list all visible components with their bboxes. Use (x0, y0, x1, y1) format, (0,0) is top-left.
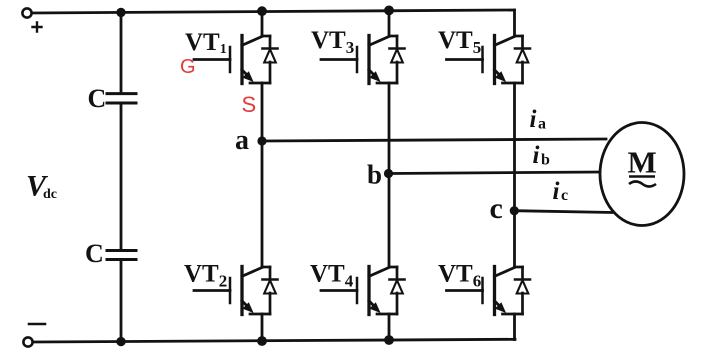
svg-text:VT3: VT3 (311, 27, 354, 57)
diode of VT1 (250, 36, 278, 83)
terminal - (bottom left) (23, 337, 32, 346)
wire leg3 bottom (513, 314, 516, 340)
svg-text:c: c (490, 192, 503, 225)
junction bottom rail / capacitor (116, 337, 125, 346)
wire capacitor branch lower (120, 261, 123, 342)
transistor VT2 (IGBT) (194, 267, 262, 315)
transistor VT6 (IGBT) (447, 267, 515, 315)
wire leg2 bottom (388, 314, 391, 340)
svg-text:M: M (628, 145, 657, 180)
minus sign (29, 323, 45, 326)
wire top rail (32, 10, 515, 13)
wire leg2 lower-mid (node b to VT4) (388, 174, 391, 268)
transistor VT4 (IGBT) (321, 267, 389, 315)
junction top rail / capacitor (116, 8, 125, 17)
wire phase a to motor (262, 139, 606, 141)
node b junction (384, 169, 393, 178)
svg-text:b: b (541, 152, 550, 169)
motor tilde (629, 182, 656, 187)
terminal + (top left) (22, 8, 31, 17)
wire leg1 bottom (261, 314, 264, 341)
wire leg3 lower-mid (node c to VT6) (513, 211, 516, 267)
wire leg2 top (388, 10, 391, 36)
plus sign (33, 23, 42, 32)
wire phase b to motor (389, 172, 600, 174)
capacitor C (lower) (107, 249, 136, 252)
junction bottom rail / leg2 (384, 335, 394, 345)
wire phase c to motor (515, 211, 613, 213)
svg-text:S: S (242, 92, 257, 117)
motor M (600, 123, 684, 226)
wire leg1 lower-mid (node a to VT2) (261, 141, 264, 267)
svg-text:VT5: VT5 (438, 27, 481, 57)
wire bottom rail (33, 339, 515, 342)
transistor VT1 (IGBT) (194, 36, 262, 84)
svg-text:dc: dc (43, 187, 57, 202)
svg-text:VT4: VT4 (310, 261, 354, 291)
junction top rail / leg1 (257, 6, 267, 16)
wire capacitor branch upper (120, 12, 123, 92)
svg-text:i: i (553, 178, 560, 205)
diode of VT2 (250, 267, 278, 314)
svg-text:c: c (561, 187, 568, 204)
wire leg1 upper-mid (VT1 emitter to node a) (261, 83, 264, 141)
svg-text:i: i (533, 142, 540, 169)
svg-text:a: a (235, 125, 249, 156)
wire leg3 top (513, 10, 516, 36)
wire leg1 top (261, 11, 264, 36)
wire between capacitors (120, 105, 123, 249)
transistor VT3 (IGBT) (321, 36, 389, 84)
svg-text:G: G (180, 56, 196, 78)
diode of VT6 (503, 267, 531, 314)
svg-text:VT1: VT1 (185, 29, 227, 57)
diode of VT3 (377, 36, 405, 83)
node c junction (510, 206, 519, 215)
junction top rail / leg2 (384, 5, 394, 15)
svg-text:C: C (85, 239, 104, 268)
svg-text:a: a (538, 116, 546, 133)
wire leg3 upper-mid (VT5 emitter to node c) (513, 83, 516, 211)
node a junction (257, 136, 266, 145)
transistor VT5 (IGBT) (447, 36, 515, 84)
svg-text:b: b (367, 160, 382, 190)
diode of VT4 (377, 267, 405, 314)
junction bottom rail / leg1 (257, 336, 267, 346)
svg-text:C: C (88, 84, 107, 113)
capacitor C (upper) (107, 92, 136, 95)
svg-text:VT6: VT6 (438, 261, 481, 291)
svg-text:VT2: VT2 (184, 261, 227, 291)
svg-text:i: i (530, 106, 537, 133)
motor underline (629, 175, 655, 177)
wire leg2 upper-mid (VT3 emitter to node b) (388, 83, 391, 174)
diode of VT5 (503, 36, 531, 83)
